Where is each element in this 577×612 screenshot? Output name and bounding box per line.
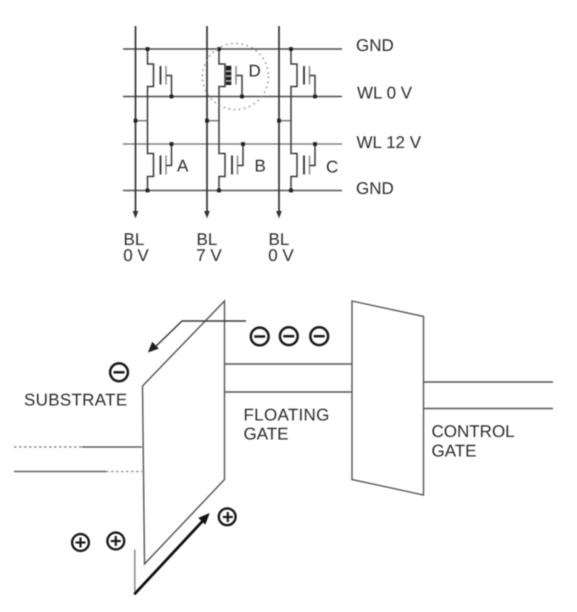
transistor A (bottom-left cell) (146, 121, 174, 193)
wire: carrier entry path (vertical) (134, 550, 136, 592)
label CONTROL GATE (432, 422, 515, 461)
svg-text:C: C (326, 158, 338, 177)
wire bit line BL1 (with arrowhead) (133, 26, 139, 219)
svg-text:0 V: 0 V (123, 246, 149, 265)
label BL 0 V (column 3) (268, 230, 294, 265)
svg-text:GATE: GATE (432, 441, 477, 460)
floating gate band line (upper) (225, 363, 353, 365)
label FLOATING GATE (244, 406, 330, 444)
substrate band edge (lower) (14, 471, 142, 473)
hole symbol 3 (at barrier) (219, 508, 236, 525)
svg-text:WL 12 V: WL 12 V (357, 133, 422, 152)
transistor C (bottom-right cell) (289, 121, 317, 193)
interpoly oxide barrier (floating gate / control gate) (352, 301, 424, 495)
wire GND source line (top) (123, 48, 342, 50)
substrate band edge (upper, partly dotted) (14, 446, 142, 448)
svg-text:D: D (249, 62, 261, 81)
transistor B (bottom-middle cell) (217, 121, 245, 193)
svg-text:0 V: 0 V (268, 246, 294, 265)
svg-text:SUBSTRATE: SUBSTRATE (24, 391, 127, 410)
hole symbol 1 (substrate) (72, 534, 89, 551)
electron symbol 2 on floating gate (280, 327, 298, 345)
tunnel oxide barrier (substrate / floating gate) (143, 301, 225, 564)
electron symbol 3 on floating gate (310, 327, 328, 345)
wire GND source line (bottom) (123, 190, 342, 192)
wire word line WL 12 V (123, 143, 342, 145)
electron symbol 1 on floating gate (251, 328, 269, 346)
svg-text:FLOATING: FLOATING (244, 406, 330, 425)
label BL 0 V (column 1) (123, 230, 149, 265)
dashed highlight circle around cell D (203, 44, 269, 110)
transistor D (programmed cell, charged floating gate) (217, 47, 244, 121)
svg-text:CONTROL: CONTROL (432, 422, 515, 441)
thick arrow: hot-electron injection through barrier (134, 513, 209, 594)
wire bit line BL2 (with arrowhead) (204, 26, 210, 219)
electron symbol near substrate (110, 363, 128, 381)
svg-text:7 V: 7 V (196, 246, 222, 265)
svg-text:GATE: GATE (244, 425, 289, 444)
svg-text:GND: GND (356, 36, 394, 55)
wire bit line BL3 (with arrowhead) (276, 26, 282, 219)
control gate band line (lower) (424, 408, 554, 410)
node bit line tap column 3 (277, 119, 291, 123)
node bit line tap column 1 (134, 119, 148, 123)
node bit line tap column 2 (205, 119, 219, 123)
svg-text:A: A (177, 157, 189, 176)
floating gate band line (lower) (225, 391, 353, 393)
transistor top-left cell (floating-gate FET) (146, 47, 174, 121)
svg-text:B: B (255, 157, 266, 176)
transistor top-right cell (floating-gate FET) (289, 47, 317, 121)
thin arrow: electron escape path toward substrate (148, 321, 246, 353)
label BL 7 V (column 2) (196, 230, 222, 265)
control gate band line (upper) (424, 381, 554, 383)
wire word line WL 0 V (123, 96, 342, 98)
hole symbol 2 (substrate) (107, 533, 124, 550)
svg-text:WL 0 V: WL 0 V (357, 84, 413, 103)
svg-text:GND: GND (356, 179, 394, 198)
